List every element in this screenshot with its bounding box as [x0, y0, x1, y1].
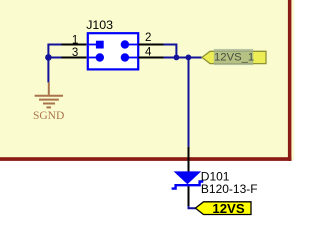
- diode schottky bar: [172, 182, 204, 189]
- ground bar 3: [43, 103, 55, 105]
- power port 12VS flag: [195, 202, 251, 215]
- connector J103 body: [88, 33, 138, 69]
- ground bar 2: [39, 99, 59, 101]
- ground stem: [48, 82, 50, 95]
- ground bar 4: [47, 106, 52, 108]
- junction B: [186, 55, 192, 61]
- pin 4 line: [138, 57, 163, 59]
- sheet border bottom: [0, 157, 292, 161]
- pin 3 pad: [89, 57, 99, 59]
- pin 4 pad: [129, 57, 137, 59]
- wire pin4 to port 12VS_1: [164, 57, 202, 59]
- svg-text:4: 4: [145, 46, 152, 58]
- wire down to diode: [188, 58, 190, 147]
- diode D101 triangle: [174, 171, 202, 184]
- sheet border right: [288, 0, 292, 161]
- svg-text:SGND: SGND: [33, 110, 64, 122]
- wire pin1 to corner: [48, 45, 61, 83]
- svg-text:J103: J103: [86, 18, 113, 32]
- ground bar 1: [35, 95, 63, 97]
- svg-text:3: 3: [72, 47, 78, 59]
- wire pin2 to corner down: [164, 45, 177, 58]
- wire diode to port 12VS: [189, 205, 196, 208]
- junction A: [174, 55, 180, 61]
- diode pin bottom: [188, 186, 190, 206]
- pin 2 line: [138, 44, 163, 46]
- highlight band over 12VS_1: [214, 49, 254, 65]
- svg-text:2: 2: [145, 32, 151, 44]
- diode pin top: [188, 147, 190, 172]
- svg-text:12VS_1: 12VS_1: [214, 52, 254, 64]
- junction left: [45, 54, 52, 61]
- wire pin3 to junction: [48, 57, 61, 59]
- pin 1 pad (square): [89, 44, 96, 46]
- pin 3 line: [62, 57, 87, 59]
- svg-text:B120-13-F: B120-13-F: [201, 182, 258, 196]
- pin 2 pad: [129, 44, 137, 46]
- svg-text:12VS: 12VS: [212, 201, 244, 216]
- net label 12VS_1 flag: [202, 51, 266, 63]
- pin 1 line: [62, 44, 87, 46]
- svg-text:1: 1: [72, 34, 78, 46]
